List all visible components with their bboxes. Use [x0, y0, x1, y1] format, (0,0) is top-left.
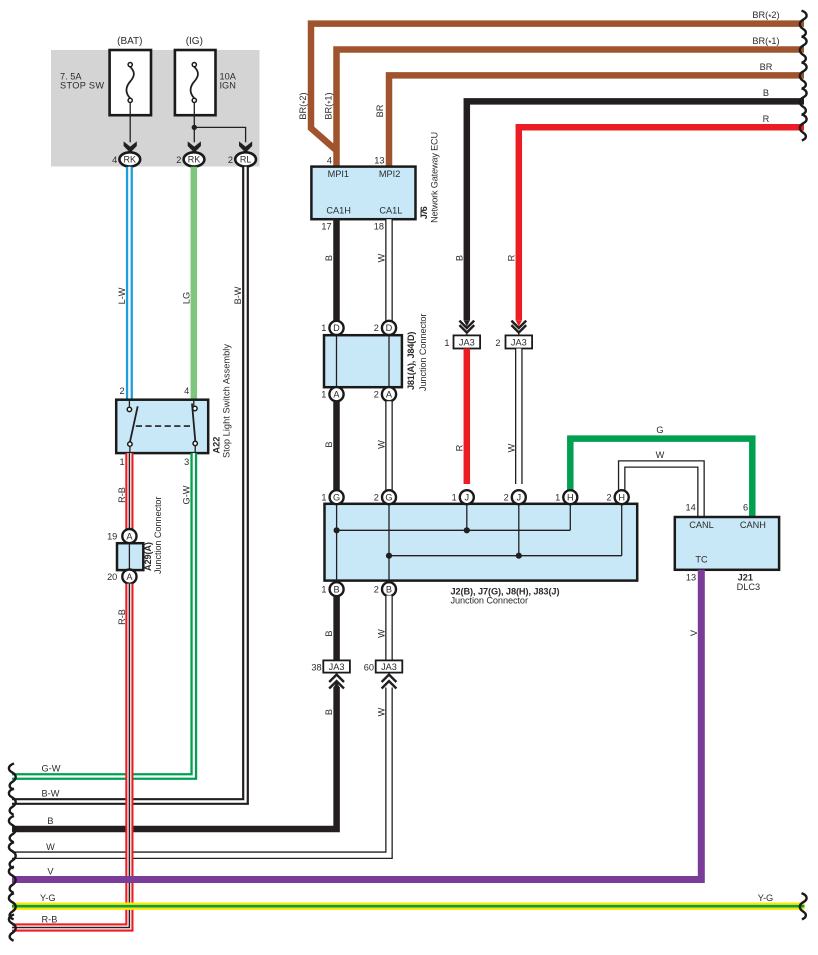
svg-text:20: 20: [107, 572, 117, 582]
svg-text:W: W: [376, 707, 386, 716]
svg-text:A: A: [386, 390, 393, 400]
dashed link: [136, 425, 190, 427]
svg-text:J81(A), J84(D): J81(A), J84(D): [406, 332, 416, 391]
svg-text:2: 2: [228, 155, 233, 165]
junction dot 1J: [464, 527, 470, 533]
wire BR(*1): [337, 50, 805, 169]
svg-text:R-B: R-B: [42, 914, 58, 924]
junction connector A29: [122, 529, 136, 543]
svg-text:W: W: [506, 443, 516, 452]
svg-text:6: 6: [743, 503, 748, 513]
junction dot 2J: [516, 553, 522, 559]
wire LG RK to A22: [191, 167, 198, 401]
arrow up into 38 JA3: [329, 675, 344, 682]
svg-text:2: 2: [504, 493, 509, 503]
svg-text:Y-G: Y-G: [40, 893, 56, 903]
wire R to JA3: [519, 127, 804, 320]
svg-text:R-B: R-B: [117, 609, 127, 625]
svg-text:TC: TC: [695, 555, 708, 565]
wire G-W A22 to left: [12, 453, 194, 776]
wire W CA1L to J81: [385, 219, 393, 321]
svg-text:BR(*1): BR(*1): [752, 36, 779, 48]
connector 2 JA3: [506, 335, 533, 348]
svg-text:G-W: G-W: [42, 763, 61, 773]
wire V TC to left: [12, 570, 701, 880]
svg-text:CANL: CANL: [689, 520, 714, 530]
svg-text:1: 1: [321, 390, 326, 400]
arrow up into 60 JA3: [382, 675, 397, 682]
wire fuse2 down: [193, 103, 195, 143]
svg-text:1: 1: [444, 338, 449, 348]
connector 4 RK: [119, 152, 140, 166]
svg-text:MPI2: MPI2: [379, 169, 400, 179]
wire W JA3 to 2J: [515, 349, 523, 485]
svg-text:J: J: [465, 493, 470, 503]
svg-text:Junction Connector: Junction Connector: [153, 497, 163, 575]
wire R JA3 to 1J: [464, 349, 471, 485]
arrow into 1 JA3: [464, 320, 471, 326]
svg-text:19: 19: [107, 532, 117, 542]
svg-text:1: 1: [119, 457, 124, 467]
svg-text:B: B: [47, 816, 53, 826]
svg-text:1: 1: [452, 493, 457, 503]
svg-text:2: 2: [606, 493, 611, 503]
wire Y-G: [12, 903, 805, 910]
svg-text:4: 4: [184, 386, 189, 396]
connector 2 RL: [235, 152, 256, 166]
wire branch to RL: [194, 127, 245, 142]
svg-text:R: R: [454, 444, 464, 451]
svg-text:STOP SW: STOP SW: [60, 81, 104, 91]
pin 1 B: [330, 582, 344, 596]
svg-text:3: 3: [184, 457, 189, 467]
svg-text:J: J: [517, 493, 522, 503]
svg-text:B: B: [324, 441, 334, 447]
fuse 7.5A STOP SW: [110, 50, 151, 115]
svg-text:B: B: [334, 585, 340, 595]
pin 2 J: [512, 490, 526, 504]
ECU J76: [311, 167, 415, 220]
arrow into 2 RK: [188, 141, 201, 152]
svg-text:2: 2: [176, 155, 181, 165]
pin 2 D: [382, 321, 396, 335]
pin 1 D: [329, 321, 343, 335]
svg-text:V: V: [689, 629, 699, 636]
wire W junction to 60 JA3: [385, 596, 393, 662]
connector 60 JA3: [376, 660, 403, 672]
switch lever right: [192, 404, 195, 442]
wire B JA3 to left: [12, 687, 337, 829]
svg-text:B: B: [386, 585, 392, 595]
svg-text:BR(*2): BR(*2): [752, 10, 779, 22]
wire B junction to 38 JA3: [333, 596, 340, 662]
svg-text:H: H: [618, 493, 625, 503]
pin 2 H: [615, 490, 629, 504]
pin 2 A: [382, 387, 396, 401]
svg-text:A29(A): A29(A): [143, 542, 153, 571]
svg-text:Y-G: Y-G: [758, 893, 774, 903]
arrow into 2 RL: [239, 141, 252, 152]
svg-text:1: 1: [555, 493, 560, 503]
arrow into 4 RK: [124, 141, 137, 152]
svg-text:B: B: [324, 630, 334, 636]
junction connector J2 J7 J8 J83: [325, 504, 638, 581]
svg-text:B: B: [763, 88, 769, 98]
wire L-W RK to A22: [126, 167, 133, 401]
svg-text:CA1H: CA1H: [326, 205, 351, 215]
svg-text:W: W: [376, 253, 386, 262]
svg-text:Junction Connector: Junction Connector: [418, 314, 428, 392]
svg-text:JA3: JA3: [381, 662, 397, 672]
svg-text:A: A: [126, 572, 133, 582]
svg-text:H: H: [567, 493, 574, 503]
svg-text:RL: RL: [240, 155, 252, 165]
wire G 1H to CANH: [570, 439, 752, 519]
svg-text:Network Gateway ECU: Network Gateway ECU: [429, 132, 439, 223]
svg-text:2: 2: [374, 323, 379, 333]
svg-text:CA1L: CA1L: [379, 205, 402, 215]
fuse 10A IGN: [175, 50, 216, 115]
svg-text:60: 60: [364, 663, 374, 673]
svg-text:B-W: B-W: [233, 286, 243, 304]
svg-text:L-W: L-W: [117, 287, 127, 304]
wire fuse1 to connector: [129, 103, 131, 143]
svg-text:2: 2: [495, 338, 500, 348]
svg-text:A22: A22: [212, 437, 222, 454]
switch lever left: [130, 406, 138, 442]
svg-text:14: 14: [685, 503, 695, 513]
svg-text:2: 2: [374, 493, 379, 503]
svg-text:18: 18: [374, 222, 384, 232]
svg-text:CANH: CANH: [740, 520, 766, 530]
svg-text:B: B: [324, 709, 334, 715]
svg-text:RK: RK: [124, 155, 137, 165]
arrow into 2 JA3: [516, 320, 523, 326]
svg-text:W: W: [376, 629, 386, 638]
junction connector J81: [324, 335, 402, 387]
break symbols left: [9, 764, 16, 790]
svg-text:W: W: [656, 450, 665, 460]
svg-text:1: 1: [321, 323, 326, 333]
svg-text:BR: BR: [760, 62, 773, 72]
svg-text:RK: RK: [188, 155, 201, 165]
svg-text:G-W: G-W: [181, 485, 191, 504]
stop light switch A22: [116, 400, 208, 453]
break symbol Y-G right: [800, 893, 807, 919]
svg-text:G: G: [333, 493, 340, 503]
wire W 2H to CANL: [622, 464, 701, 518]
pin 1 A: [329, 387, 343, 401]
pin 1 G: [330, 490, 344, 504]
svg-text:LG: LG: [181, 292, 191, 304]
svg-text:BR: BR: [375, 104, 385, 117]
svg-text:W: W: [46, 842, 55, 852]
wire BR: [389, 75, 804, 168]
wire BR(*2): [311, 24, 804, 151]
svg-text:D: D: [386, 323, 393, 333]
connector 38 JA3: [323, 660, 350, 672]
wire B to JA3: [467, 101, 804, 320]
svg-text:13: 13: [686, 572, 696, 582]
junction dot 1G: [334, 527, 340, 533]
wire R-B A29 to bottom: [12, 584, 129, 928]
svg-text:4: 4: [327, 156, 332, 166]
svg-text:B: B: [324, 255, 334, 261]
svg-text:JA3: JA3: [329, 662, 345, 672]
svg-text:1: 1: [321, 585, 326, 595]
pin 2 G: [382, 490, 396, 504]
wire W J81 to junction: [385, 401, 393, 491]
wire W JA3 to left: [12, 688, 389, 856]
svg-text:R: R: [506, 254, 516, 261]
connector 1 JA3: [454, 335, 481, 348]
svg-text:38: 38: [311, 663, 321, 673]
pin 1 J: [460, 490, 474, 504]
svg-text:MPI1: MPI1: [328, 169, 349, 179]
svg-text:B: B: [454, 255, 464, 261]
svg-text:V: V: [47, 866, 54, 876]
wire B CA1H to J81: [333, 219, 340, 321]
svg-text:JA3: JA3: [459, 337, 475, 347]
DLC3 J21: [675, 517, 779, 570]
svg-text:2: 2: [374, 390, 379, 400]
svg-text:W: W: [376, 440, 386, 449]
svg-text:13: 13: [374, 156, 384, 166]
internal bus 2G-2J-2H: [389, 555, 622, 557]
svg-text:Stop Light Switch Assembly: Stop Light Switch Assembly: [221, 344, 231, 458]
svg-text:B-W: B-W: [42, 788, 60, 798]
svg-text:DLC3: DLC3: [737, 582, 761, 592]
fuse box (gray): [51, 50, 260, 167]
svg-text:R: R: [763, 114, 770, 124]
svg-text:A: A: [333, 390, 340, 400]
connector 2 RK: [184, 152, 205, 166]
svg-text:G: G: [656, 425, 663, 435]
junction dot 2G: [386, 553, 392, 559]
svg-text:17: 17: [321, 222, 331, 232]
svg-text:IGN: IGN: [220, 81, 236, 91]
pin 2 B: [382, 582, 396, 596]
wire B J81 to junction: [333, 401, 340, 491]
svg-text:1: 1: [321, 493, 326, 503]
junction dot: [192, 125, 197, 130]
wire B-W RL to left: [12, 167, 246, 802]
pin 1 H: [563, 490, 577, 504]
svg-text:A: A: [126, 532, 133, 542]
svg-text:Junction Connector: Junction Connector: [451, 596, 529, 606]
internal bus 1G-1J-1H: [337, 529, 571, 531]
svg-text:4: 4: [112, 155, 117, 165]
svg-text:(IG): (IG): [186, 36, 203, 47]
break symbols right top: [800, 11, 807, 37]
svg-text:G: G: [385, 493, 392, 503]
svg-text:R-B: R-B: [117, 487, 127, 503]
wire R-B A22 to A29: [125, 453, 133, 529]
svg-text:J76: J76: [419, 206, 429, 219]
svg-text:2: 2: [119, 386, 124, 396]
svg-text:2: 2: [374, 585, 379, 595]
svg-text:(BAT): (BAT): [117, 36, 142, 47]
svg-text:D: D: [333, 323, 340, 333]
svg-text:JA3: JA3: [511, 337, 527, 347]
